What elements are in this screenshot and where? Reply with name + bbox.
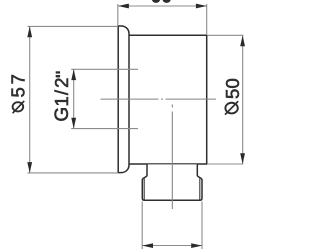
bottom dim ext right — [201, 202, 203, 250]
svg-text:G: G — [52, 107, 73, 122]
dim G1/2 arrow up — [71, 69, 76, 80]
label Ø57 circle — [13, 102, 24, 111]
dim 35 ext left — [117, 4, 119, 26]
bottom dim arrow right — [191, 243, 202, 248]
body Ø50 cylinder (side view rectangle) — [129, 35, 207, 164]
label digit 2 bottom (cropped) — [162, 0, 171, 3]
bottom dim line — [142, 245, 202, 247]
label Ø50 slash — [225, 101, 238, 114]
svg-text:7: 7 — [7, 74, 28, 84]
bottom dim ext left — [141, 202, 143, 250]
horizontal centerline — [101, 98, 217, 100]
svg-text:5: 5 — [7, 87, 28, 97]
dim Ø50 ext bottom — [207, 163, 243, 165]
svg-text:5: 5 — [222, 89, 243, 99]
svg-text:2: 2 — [51, 78, 72, 88]
label Ø50 circle — [225, 103, 237, 114]
dim G1/2 ext top — [71, 68, 138, 70]
dim 35 arrow right — [196, 4, 207, 9]
dim Ø57 arrow up — [27, 26, 32, 37]
label Ø57 slash — [13, 101, 25, 113]
svg-text:1: 1 — [51, 96, 72, 106]
flange Ø57 (side view slab, rounded right corners) — [118, 26, 129, 173]
svg-text:0: 0 — [222, 78, 243, 88]
vertical centerline — [171, 105, 173, 210]
dim G1/2 line — [73, 69, 75, 128]
dim Ø50 arrow down — [240, 153, 245, 164]
thread root line right — [199, 178, 201, 199]
threaded connector outline — [142, 164, 202, 200]
dim 35 arrow left — [118, 4, 129, 9]
dim Ø50 line — [242, 35, 244, 164]
thread root line left — [143, 178, 145, 199]
dim G1/2 ext bottom — [71, 128, 138, 130]
label G1/2 quote marks — [56, 71, 60, 73]
bottom dim arrow left — [142, 243, 153, 248]
dim G1/2 arrow down — [71, 118, 76, 129]
dim Ø57 line — [29, 26, 31, 173]
dim Ø57 extension top — [28, 25, 119, 27]
svg-text:/: / — [51, 89, 72, 95]
dim 35 ext right — [206, 4, 208, 35]
dim Ø50 ext top — [207, 34, 243, 36]
dim 35 line (top, value cropped) — [118, 5, 207, 7]
dim Ø57 arrow down — [27, 162, 32, 173]
dim Ø57 extension bottom — [28, 172, 119, 174]
label 35 (cropped by image top) digit 1 bottom — [152, 0, 161, 3]
dim Ø50 arrow up — [240, 35, 245, 46]
